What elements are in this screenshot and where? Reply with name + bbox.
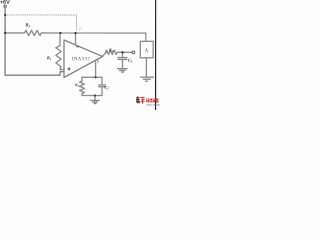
node dot pin5/network bbox=[94, 76, 96, 78]
wire J1 to ground bbox=[145, 58, 147, 77]
svg-text:R3: R3 bbox=[25, 22, 30, 28]
terminal IN (+6V) bbox=[4, 5, 6, 7]
wire gain network top bbox=[82, 76, 102, 78]
node dot B (inv pin) bbox=[74, 32, 76, 34]
svg-text:www.elecfans.com: www.elecfans.com bbox=[146, 103, 160, 107]
op-amp U1 bbox=[64, 40, 103, 78]
ground gain network bbox=[91, 96, 100, 104]
svg-text:J1: J1 bbox=[144, 47, 149, 53]
svg-text:INA337: INA337 bbox=[72, 57, 91, 62]
plus sign U1 bbox=[68, 68, 71, 71]
watermark red text (4 small CJK glyphs drawn as blocks) bbox=[146, 99, 158, 103]
wire to output terminal bbox=[123, 51, 132, 53]
node dot supply/dashed bbox=[4, 14, 6, 16]
wire bottom rail bbox=[5, 72, 64, 76]
svg-text:5: 5 bbox=[97, 59, 99, 63]
node dot output/C3 bbox=[121, 51, 123, 53]
svg-text:F1: F1 bbox=[78, 27, 82, 32]
svg-text:C3: C3 bbox=[128, 58, 133, 64]
scan fold line right bbox=[155, 0, 156, 110]
wire inverting pin bbox=[75, 33, 77, 45]
svg-text:R1: R1 bbox=[47, 55, 52, 61]
wire output bbox=[102, 52, 107, 56]
resistor R1 bbox=[56, 33, 64, 70]
svg-text:C2: C2 bbox=[104, 85, 109, 91]
svg-text:R4: R4 bbox=[109, 47, 114, 53]
wire gain network bottom bbox=[82, 95, 102, 97]
node dot R3 left bbox=[4, 32, 6, 34]
watermark logo char 2 (red CJK glyph drawn as shapes) bbox=[140, 97, 144, 104]
node dot A (R1 top) bbox=[59, 32, 61, 34]
ground J1 bbox=[140, 77, 153, 81]
resistor R2 bbox=[80, 77, 85, 95]
wire pin5 bbox=[95, 60, 97, 77]
terminal OUT bbox=[132, 51, 135, 54]
node dot ground/network bottom bbox=[94, 95, 96, 97]
watermark logo char 1 (dark CJK glyph drawn as shapes) bbox=[136, 96, 140, 103]
ground C3 bbox=[118, 69, 128, 72]
resistor R4 bbox=[106, 50, 123, 54]
minus sign U1 bbox=[77, 46, 79, 48]
svg-text:+6V: +6V bbox=[0, 0, 10, 6]
resistor R3 bbox=[5, 30, 60, 35]
connector J1 box bbox=[140, 41, 153, 58]
capacitor C3 bbox=[118, 52, 127, 68]
wire dashed bootstrap bbox=[5, 15, 76, 32]
wire left vertical rail bbox=[4, 7, 6, 75]
wire node to J1 bbox=[60, 33, 145, 41]
capacitor C2 bbox=[99, 77, 106, 95]
